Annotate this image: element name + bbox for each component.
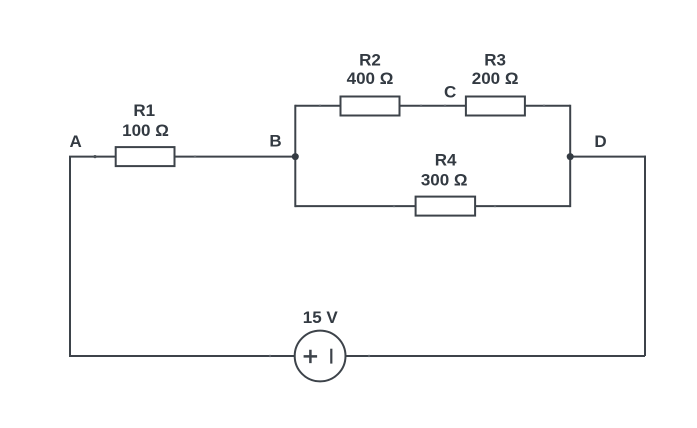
terminal nub below C bbox=[444, 105, 446, 107]
terminal nub right of R3 bbox=[543, 105, 545, 107]
svg-text:R3: R3 bbox=[484, 51, 506, 70]
node B junction dot bbox=[292, 153, 299, 160]
svg-text:300 Ω: 300 Ω bbox=[421, 170, 468, 189]
voltage source V1 circle bbox=[295, 331, 346, 382]
terminal nub left of R4 bbox=[393, 205, 395, 207]
resistor R1 bbox=[116, 147, 175, 166]
terminal nub on wire R1-B bbox=[194, 155, 196, 157]
wire: right side up bbox=[644, 156, 646, 356]
terminal nub left of R2 bbox=[319, 105, 321, 107]
terminal nub right of battery bbox=[368, 355, 370, 357]
wire: D vertical branch bbox=[569, 105, 571, 207]
resistor R2 bbox=[341, 97, 400, 116]
resistor R3 bbox=[466, 97, 525, 116]
svg-text:15 V: 15 V bbox=[303, 308, 339, 327]
terminal nub left of battery bbox=[269, 355, 271, 357]
svg-text:R2: R2 bbox=[359, 51, 381, 70]
wire: left loop A down to bottom bbox=[69, 157, 71, 356]
svg-text:C: C bbox=[444, 83, 456, 102]
node D junction dot bbox=[567, 153, 574, 160]
svg-text:R1: R1 bbox=[133, 101, 155, 120]
wire: bottom branch B to D bbox=[295, 205, 570, 207]
terminal nub right of R4 bbox=[494, 205, 496, 207]
wire: top branch B to D bbox=[295, 105, 570, 107]
svg-text:A: A bbox=[70, 132, 82, 151]
svg-text:B: B bbox=[269, 132, 281, 151]
svg-text:200 Ω: 200 Ω bbox=[472, 69, 519, 88]
wire: B vertical branch bbox=[294, 105, 296, 207]
svg-text:D: D bbox=[594, 132, 606, 151]
terminal nub on wire A-R1 bbox=[93, 155, 96, 158]
wire: D to right side bbox=[570, 156, 646, 158]
svg-text:100 Ω: 100 Ω bbox=[122, 121, 169, 140]
voltage source plus symbol bbox=[304, 350, 318, 363]
resistor R4 bbox=[416, 197, 476, 216]
voltage source minus bar bbox=[330, 349, 332, 364]
terminal nub right of R2 bbox=[420, 105, 422, 107]
svg-text:400 Ω: 400 Ω bbox=[347, 69, 394, 88]
svg-text:R4: R4 bbox=[435, 151, 457, 170]
wire: bottom left to battery bbox=[69, 355, 295, 357]
wire: A to B bbox=[69, 156, 295, 158]
wire: battery to bottom right bbox=[345, 355, 645, 357]
